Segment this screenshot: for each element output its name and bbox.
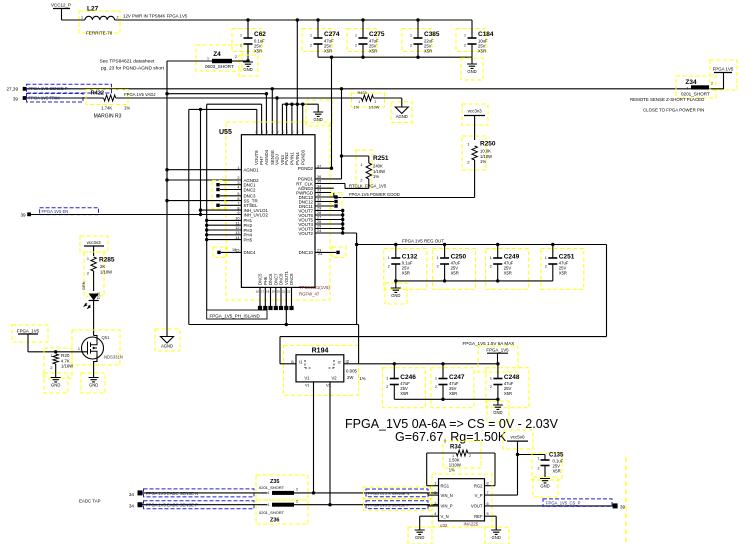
svg-text:1: 1 bbox=[434, 482, 436, 486]
svg-text:See TPS84621 datasheet: See TPS84621 datasheet bbox=[100, 59, 156, 65]
svg-text:2K: 2K bbox=[100, 264, 105, 269]
svg-text:FPGA 1V5 EN: FPGA 1V5 EN bbox=[42, 209, 69, 214]
wire reg out vertical bbox=[355, 233, 358, 325]
svg-text:VIN_N: VIN_N bbox=[441, 493, 453, 498]
svg-text:1: 1 bbox=[538, 457, 540, 461]
svg-text:X5R: X5R bbox=[504, 271, 512, 276]
svg-text:REF: REF bbox=[474, 514, 483, 519]
text remote sense note bbox=[630, 97, 704, 113]
svg-text:2: 2 bbox=[235, 55, 237, 59]
svg-text:2: 2 bbox=[296, 499, 298, 503]
net label FPGA 1V5 TRIM bbox=[27, 94, 84, 103]
resistor R34 bbox=[443, 441, 481, 472]
wire V1 sense drop bbox=[312, 382, 315, 495]
svg-text:AGND4: AGND4 bbox=[264, 149, 269, 165]
svg-text:TPS84621(1V5): TPS84621(1V5) bbox=[299, 285, 330, 290]
wire reg out loop right bbox=[280, 245, 607, 364]
U55 bottom pin stubs and pads bbox=[256, 287, 294, 324]
capacitor C249 bbox=[486, 245, 529, 290]
svg-text:Z34: Z34 bbox=[685, 79, 697, 86]
svg-text:1: 1 bbox=[410, 34, 412, 38]
junction C132 top bbox=[394, 243, 397, 246]
svg-text:X5R: X5R bbox=[369, 49, 377, 54]
junction sense drop bbox=[271, 87, 274, 90]
svg-text:V_P: V_P bbox=[475, 493, 483, 498]
svg-text:2: 2 bbox=[386, 385, 388, 389]
svg-text:41: 41 bbox=[271, 130, 275, 134]
gnd under REF bbox=[485, 527, 509, 544]
wire R34 to RG pins bbox=[427, 453, 495, 486]
svg-text:240K: 240K bbox=[373, 164, 383, 169]
svg-text:X5R: X5R bbox=[449, 391, 457, 396]
svg-text:X5R: X5R bbox=[553, 469, 561, 474]
svg-text:2: 2 bbox=[360, 179, 362, 183]
svg-text:1: 1 bbox=[545, 256, 547, 260]
svg-text:0.005: 0.005 bbox=[346, 369, 358, 374]
svg-text:C248: C248 bbox=[504, 374, 520, 381]
svg-text:DNC9: DNC9 bbox=[289, 273, 294, 285]
svg-text:1: 1 bbox=[240, 34, 242, 38]
svg-text:7: 7 bbox=[487, 491, 489, 495]
svg-text:AGND: AGND bbox=[161, 344, 173, 349]
AGND vertical rail bbox=[166, 61, 168, 337]
svg-text:2: 2 bbox=[467, 161, 469, 165]
svg-text:DNC2: DNC2 bbox=[244, 187, 257, 192]
svg-text:8: 8 bbox=[487, 482, 489, 486]
svg-text:20: 20 bbox=[277, 290, 281, 294]
svg-text:1: 1 bbox=[81, 16, 83, 20]
resistor R423 on VADJ-AGND line bbox=[352, 91, 402, 110]
svg-text:1: 1 bbox=[78, 347, 80, 351]
text note TPS54621 datasheet bbox=[100, 59, 165, 72]
svg-text:V_N: V_N bbox=[441, 514, 449, 519]
junction C385 top bbox=[416, 18, 419, 21]
svg-text:PVIN2: PVIN2 bbox=[284, 152, 289, 165]
gnd under C132 bbox=[385, 279, 407, 304]
svg-text:X5R: X5R bbox=[400, 391, 408, 396]
svg-text:RTCLK_FPGA_1V5: RTCLK_FPGA_1V5 bbox=[349, 183, 387, 188]
capacitor C275 bbox=[347, 20, 385, 57]
svg-text:vcc3v3: vcc3v3 bbox=[87, 240, 102, 245]
wire RT_CLK to R251 bbox=[315, 183, 387, 188]
capacitor C250 bbox=[433, 245, 476, 290]
svg-text:1: 1 bbox=[388, 256, 390, 260]
gnd at U55 top bus bbox=[306, 100, 332, 126]
gnd under V_N bbox=[408, 527, 432, 544]
svg-text:X5R: X5R bbox=[478, 49, 486, 54]
svg-text:C250: C250 bbox=[451, 254, 467, 261]
svg-text:X5R: X5R bbox=[559, 271, 567, 276]
svg-text:1: 1 bbox=[268, 503, 270, 507]
svg-text:4: 4 bbox=[434, 512, 436, 516]
junction C250 top bbox=[443, 243, 446, 246]
svg-text:DNC6: DNC6 bbox=[268, 273, 273, 285]
svg-text:GND: GND bbox=[492, 535, 501, 540]
svg-text:2: 2 bbox=[117, 16, 119, 20]
junction C248 top bbox=[496, 362, 499, 365]
power flag FPGA_1V5 output bbox=[463, 341, 519, 372]
svg-text:1: 1 bbox=[268, 491, 270, 495]
wire EADC sense N bbox=[143, 492, 268, 494]
svg-text:0603_SHORT: 0603_SHORT bbox=[205, 64, 234, 69]
svg-text:42: 42 bbox=[275, 130, 279, 134]
wire PH bus bbox=[205, 104, 241, 310]
svg-text:FPGA 1V5 REG OUT: FPGA 1V5 REG OUT bbox=[402, 239, 444, 244]
svg-text:2: 2 bbox=[50, 366, 52, 370]
capacitor C184 bbox=[456, 20, 494, 57]
capacitor C385 bbox=[402, 20, 440, 57]
U55 top pin names bbox=[254, 130, 305, 165]
svg-text:2: 2 bbox=[469, 454, 471, 458]
svg-text:GND: GND bbox=[51, 383, 60, 388]
wire AGND4 tie line bbox=[165, 92, 268, 135]
wire PH7 feeder bbox=[207, 104, 262, 135]
svg-text:1%: 1% bbox=[480, 159, 486, 164]
svg-text:DNC4: DNC4 bbox=[244, 250, 257, 255]
resistor R422 MARGIN R3 bbox=[27, 90, 131, 120]
U55 bottom pin names bbox=[258, 270, 295, 285]
svg-text:Q51: Q51 bbox=[102, 335, 111, 340]
svg-text:2: 2 bbox=[538, 467, 540, 471]
wire U55 AGND1 to AGND rail bbox=[165, 168, 241, 171]
svg-text:15: 15 bbox=[232, 248, 236, 252]
svg-text:R20: R20 bbox=[61, 353, 70, 358]
svg-text:DNC10: DNC10 bbox=[299, 250, 314, 255]
inductor L27 bbox=[79, 6, 120, 36]
svg-text:RGFW_47: RGFW_47 bbox=[299, 291, 320, 296]
svg-text:0201_SHORT: 0201_SHORT bbox=[259, 510, 285, 515]
svg-text:R34: R34 bbox=[450, 445, 462, 451]
PH island label box bbox=[207, 310, 267, 319]
svg-text:2: 2 bbox=[490, 385, 492, 389]
svg-text:C275: C275 bbox=[369, 31, 385, 38]
svg-text:DNC5: DNC5 bbox=[258, 273, 263, 285]
svg-text:2: 2 bbox=[545, 265, 547, 269]
gnd under C184 bbox=[461, 57, 483, 80]
highlight divider bottom right bbox=[625, 457, 627, 544]
svg-text:INH_UVLO2: INH_UVLO2 bbox=[244, 213, 269, 218]
wire VOUT pins bus bbox=[315, 209, 357, 235]
svg-text:39: 39 bbox=[20, 213, 26, 218]
svg-text:1%: 1% bbox=[124, 106, 130, 111]
svg-text:AGND: AGND bbox=[396, 114, 408, 119]
svg-text:C132: C132 bbox=[402, 254, 418, 261]
svg-text:46: 46 bbox=[296, 130, 300, 134]
wire AGND3 stub bbox=[315, 187, 334, 189]
svg-text:MARGIN R3: MARGIN R3 bbox=[94, 114, 122, 120]
svg-text:G=67.67, Rg=1.50K: G=67.67, Rg=1.50K bbox=[395, 430, 507, 444]
svg-text:FPGA_1V5 0A-6A => CS = 0V - 2.: FPGA_1V5 0A-6A => CS = 0V - 2.03V bbox=[345, 417, 559, 431]
svg-text:1: 1 bbox=[87, 257, 89, 261]
wire FPGA 1V5 VADJ bbox=[116, 92, 362, 135]
svg-text:1%: 1% bbox=[354, 106, 360, 110]
power flag vcc5v0 bbox=[503, 430, 533, 455]
svg-text:FPGA 1V5 VADJ: FPGA 1V5 VADJ bbox=[124, 92, 155, 97]
wire VIN_P into U32 bbox=[366, 505, 439, 506]
wire VOUT to CS port bbox=[485, 505, 614, 507]
agnd on VADJ line bbox=[391, 98, 412, 123]
wire PWRGD to R250 bbox=[315, 192, 475, 198]
svg-text:1: 1 bbox=[386, 377, 388, 381]
svg-text:PGND3: PGND3 bbox=[300, 149, 305, 165]
svg-text:C251: C251 bbox=[559, 254, 575, 261]
capacitor C62 bbox=[232, 20, 266, 57]
svg-text:V1: V1 bbox=[304, 376, 310, 381]
svg-text:39: 39 bbox=[13, 97, 19, 102]
gnd under C248 bbox=[487, 398, 509, 422]
wire 12V input rail bbox=[62, 14, 473, 20]
zero-ohm Z36 0201_SHORT bbox=[256, 499, 439, 524]
svg-text:CLOSE TO FPGA POWER PIN: CLOSE TO FPGA POWER PIN bbox=[643, 108, 704, 113]
svg-text:2W: 2W bbox=[347, 375, 353, 380]
svg-text:GND: GND bbox=[540, 484, 549, 489]
power flag FPGA_1V5 gate bbox=[12, 325, 48, 352]
svg-text:1: 1 bbox=[490, 377, 492, 381]
svg-text:C247: C247 bbox=[449, 374, 465, 381]
svg-text:GND: GND bbox=[493, 410, 502, 415]
svg-text:V1: V1 bbox=[305, 384, 310, 388]
svg-text:PVIN1: PVIN1 bbox=[290, 152, 295, 165]
svg-text:0201_SHORT: 0201_SHORT bbox=[259, 485, 285, 490]
IC U55 TPS84621 body bbox=[219, 122, 330, 300]
svg-text:I2: I2 bbox=[338, 361, 341, 365]
port 34 FPGA 1V5 EADC SENSE P bbox=[129, 502, 143, 508]
AGND symbol left rail bbox=[155, 329, 180, 351]
svg-text:AGND1: AGND1 bbox=[244, 168, 260, 173]
wire EN to INH pins bbox=[31, 108, 241, 216]
svg-text:u32: u32 bbox=[440, 523, 448, 528]
svg-text:16: 16 bbox=[256, 290, 260, 294]
svg-text:2: 2 bbox=[410, 44, 412, 48]
net label FPGA 1V5 S SENSE N bbox=[364, 487, 431, 499]
wire V_P to vcc5v0 bbox=[485, 453, 520, 495]
svg-text:40: 40 bbox=[265, 130, 269, 134]
wire PGND1 stub bbox=[315, 178, 342, 180]
port 34 FPGA 1V5 EADC SENSE N bbox=[129, 490, 143, 496]
svg-text:2: 2 bbox=[437, 265, 439, 269]
svg-text:2: 2 bbox=[355, 44, 357, 48]
wire PVIN gnd bus above U55 bbox=[282, 20, 318, 135]
capacitor C135 bbox=[518, 453, 565, 481]
junction VIN riser on 12V rail bbox=[296, 18, 299, 21]
svg-text:2: 2 bbox=[87, 272, 89, 276]
svg-text:2: 2 bbox=[464, 44, 466, 48]
svg-text:1: 1 bbox=[358, 100, 360, 104]
resistor R251 bbox=[342, 150, 389, 188]
svg-text:VIN_P: VIN_P bbox=[441, 504, 453, 509]
capacitor C274 bbox=[302, 20, 340, 57]
text FPGA_1V5 CS equation bbox=[345, 417, 559, 444]
svg-text:1: 1 bbox=[310, 34, 312, 38]
svg-text:INA225: INA225 bbox=[464, 522, 479, 527]
net label FPGA 1V5 EN bbox=[40, 208, 99, 215]
junction C246 top bbox=[393, 362, 396, 365]
wire sense P drop to pin bbox=[271, 89, 273, 135]
svg-text:2: 2 bbox=[388, 265, 390, 269]
svg-text:47: 47 bbox=[301, 130, 305, 134]
svg-text:12V PWR IN TPS84K FPGA 1V5: 12V PWR IN TPS84K FPGA 1V5 bbox=[123, 14, 188, 19]
svg-text:R423: R423 bbox=[358, 91, 367, 95]
svg-text:FPGA 1V5: FPGA 1V5 bbox=[713, 67, 734, 72]
svg-text:FPGA_1V5_CS_P: FPGA_1V5_CS_P bbox=[546, 501, 581, 506]
wire FPGA 1V5 SENSE P to Z34 bbox=[27, 88, 683, 90]
junction R251 riser bbox=[340, 87, 343, 90]
svg-text:GND: GND bbox=[314, 117, 323, 122]
svg-text:VCC12_P: VCC12_P bbox=[51, 3, 71, 8]
svg-text:2: 2 bbox=[310, 44, 312, 48]
svg-text:1/16W: 1/16W bbox=[61, 364, 73, 369]
svg-text:1: 1 bbox=[490, 256, 492, 260]
svg-text:Z4: Z4 bbox=[213, 51, 221, 58]
wire U55 AGND2 to AGND rail bbox=[165, 178, 241, 181]
svg-text:1/10W: 1/10W bbox=[100, 269, 112, 274]
svg-text:RG1: RG1 bbox=[441, 484, 450, 489]
svg-text:FPGA_1V5: FPGA_1V5 bbox=[17, 328, 40, 333]
svg-text:GND: GND bbox=[243, 67, 252, 72]
svg-text:X5R: X5R bbox=[254, 49, 262, 54]
svg-text:6: 6 bbox=[487, 502, 489, 506]
capacitor C132 bbox=[384, 245, 427, 290]
svg-text:27,39: 27,39 bbox=[7, 86, 19, 91]
svg-text:R285: R285 bbox=[99, 257, 115, 264]
svg-text:1.74K: 1.74K bbox=[101, 106, 112, 111]
no-connect squares U55 left pins bbox=[212, 181, 241, 258]
svg-text:1%: 1% bbox=[373, 174, 379, 179]
svg-text:1%: 1% bbox=[449, 467, 455, 472]
power flag vcc3v3 at R285 bbox=[80, 236, 108, 256]
no-connect squares DNC11-13 DNC10 bbox=[315, 193, 346, 258]
svg-text:VOUT2: VOUT2 bbox=[298, 231, 313, 236]
svg-text:2: 2 bbox=[435, 385, 437, 389]
wire reg out cap ground bus bbox=[396, 279, 553, 282]
LED D51 green bbox=[82, 281, 101, 335]
svg-text:R194: R194 bbox=[312, 348, 329, 355]
svg-text:1/10W: 1/10W bbox=[368, 106, 379, 110]
svg-text:GND: GND bbox=[415, 535, 424, 540]
svg-text:RG2: RG2 bbox=[474, 484, 483, 489]
wire R194 I2 output bbox=[344, 325, 359, 364]
wire REF to gnd bbox=[485, 516, 497, 530]
svg-text:U55: U55 bbox=[219, 129, 232, 136]
net label FPGA 1V5 S SENSE P bbox=[364, 499, 431, 511]
resistor R20 bbox=[44, 348, 73, 378]
svg-text:1: 1 bbox=[207, 57, 209, 61]
power flag FPGA 1V5 at Z34 bbox=[710, 60, 737, 90]
svg-text:FERRITE-78: FERRITE-78 bbox=[86, 31, 113, 36]
gnd under C135 bbox=[533, 477, 558, 497]
junction C251 top bbox=[551, 243, 554, 246]
svg-text:X5R: X5R bbox=[424, 49, 432, 54]
svg-text:EADC TAP: EADC TAP bbox=[79, 499, 101, 504]
net label FPGA_1V5_CS_P bbox=[543, 499, 612, 507]
svg-text:pg. 23 for PGND-AGND short: pg. 23 for PGND-AGND short bbox=[101, 66, 165, 72]
svg-text:2: 2 bbox=[296, 488, 298, 492]
capacitor C246 bbox=[382, 364, 425, 408]
net label FPGA 1V5 EADC SENSE P bbox=[144, 501, 255, 509]
svg-text:VOUT8: VOUT8 bbox=[254, 150, 259, 165]
svg-text:FPGA 1V5 POWER GOOD: FPGA 1V5 POWER GOOD bbox=[349, 192, 400, 197]
svg-text:21: 21 bbox=[282, 290, 286, 294]
svg-text:3: 3 bbox=[434, 502, 436, 506]
svg-text:PVIN4: PVIN4 bbox=[295, 152, 300, 165]
svg-text:5: 5 bbox=[487, 512, 489, 516]
svg-text:38: 38 bbox=[255, 130, 259, 134]
svg-text:X5R: X5R bbox=[402, 271, 410, 276]
svg-text:23: 23 bbox=[318, 252, 322, 256]
gnd under Q51 source bbox=[81, 373, 105, 393]
svg-text:PH5: PH5 bbox=[244, 237, 253, 242]
svg-text:1: 1 bbox=[437, 256, 439, 260]
svg-text:10.0K: 10.0K bbox=[480, 149, 491, 154]
svg-text:X5R: X5R bbox=[324, 49, 332, 54]
svg-text:X5R: X5R bbox=[504, 391, 512, 396]
wire V_N to gnd bbox=[420, 516, 439, 530]
wire PGND2 riser to cap bus bbox=[315, 56, 333, 170]
svg-text:VOUT: VOUT bbox=[471, 504, 483, 509]
svg-text:vcc5v0: vcc5v0 bbox=[510, 434, 525, 439]
wire VOUT8 feeder loop bbox=[189, 109, 257, 324]
IC U32 INA225 body bbox=[432, 474, 492, 528]
gnd under R20 bbox=[44, 373, 68, 393]
svg-text:2: 2 bbox=[711, 82, 713, 86]
svg-text:GRN: GRN bbox=[82, 281, 86, 290]
svg-text:1: 1 bbox=[467, 143, 469, 147]
svg-text:19: 19 bbox=[271, 290, 275, 294]
svg-text:1: 1 bbox=[464, 34, 466, 38]
svg-text:R251: R251 bbox=[373, 155, 389, 162]
wire into R194 I1 bbox=[280, 363, 296, 365]
wire output cap ground bus bbox=[394, 398, 498, 401]
svg-text:PGND2: PGND2 bbox=[298, 166, 314, 171]
svg-text:C249: C249 bbox=[504, 254, 520, 261]
svg-text:R250: R250 bbox=[480, 141, 496, 148]
svg-text:17: 17 bbox=[261, 290, 265, 294]
port 27,39 FPGA 1V5 SENSE P bbox=[7, 86, 27, 91]
zero-ohm Z35 0201_SHORT bbox=[256, 475, 439, 500]
resistor R285 bbox=[84, 252, 115, 296]
wire FPGA 1V5 REG OUT rail bbox=[357, 239, 607, 245]
svg-text:0201_SHORT: 0201_SHORT bbox=[681, 92, 710, 97]
junction C274 top bbox=[316, 18, 319, 21]
power flag VCC12_P bbox=[51, 3, 71, 21]
svg-text:GND: GND bbox=[467, 69, 476, 74]
svg-text:18: 18 bbox=[266, 290, 270, 294]
svg-text:REMOTE SENSE Z-SHORT PLACED: REMOTE SENSE Z-SHORT PLACED bbox=[630, 97, 704, 102]
svg-text:34: 34 bbox=[129, 504, 135, 509]
port 39 FPGA 1V5 TRIM bbox=[13, 96, 27, 101]
junction C249 top bbox=[496, 243, 499, 246]
svg-text:34: 34 bbox=[129, 492, 135, 497]
svg-text:2: 2 bbox=[434, 491, 436, 495]
svg-text:1%: 1% bbox=[360, 376, 366, 381]
svg-text:1: 1 bbox=[50, 354, 52, 358]
svg-text:22: 22 bbox=[287, 290, 291, 294]
svg-text:C385: C385 bbox=[424, 31, 440, 38]
svg-text:C62: C62 bbox=[254, 31, 266, 38]
svg-text:C246: C246 bbox=[400, 374, 416, 381]
svg-text:FPGA_1V5 1.5V 6A MAX: FPGA_1V5 1.5V 6A MAX bbox=[463, 341, 515, 346]
transistor Q51 nmos bbox=[72, 330, 123, 378]
port 39 FPGA 1V5 EN bbox=[20, 212, 31, 217]
wire gate network bbox=[28, 350, 88, 353]
U55 right pin names bbox=[296, 164, 321, 255]
svg-text:44: 44 bbox=[285, 130, 289, 134]
resistor R250 with vcc3v3 bbox=[462, 104, 496, 198]
svg-text:VADJ: VADJ bbox=[275, 154, 280, 165]
wire FPGA_1V5 output rail bbox=[359, 363, 498, 365]
zero-ohm Z34 0201_SHORT bbox=[676, 76, 724, 98]
wire EADC sense P bbox=[143, 504, 268, 506]
